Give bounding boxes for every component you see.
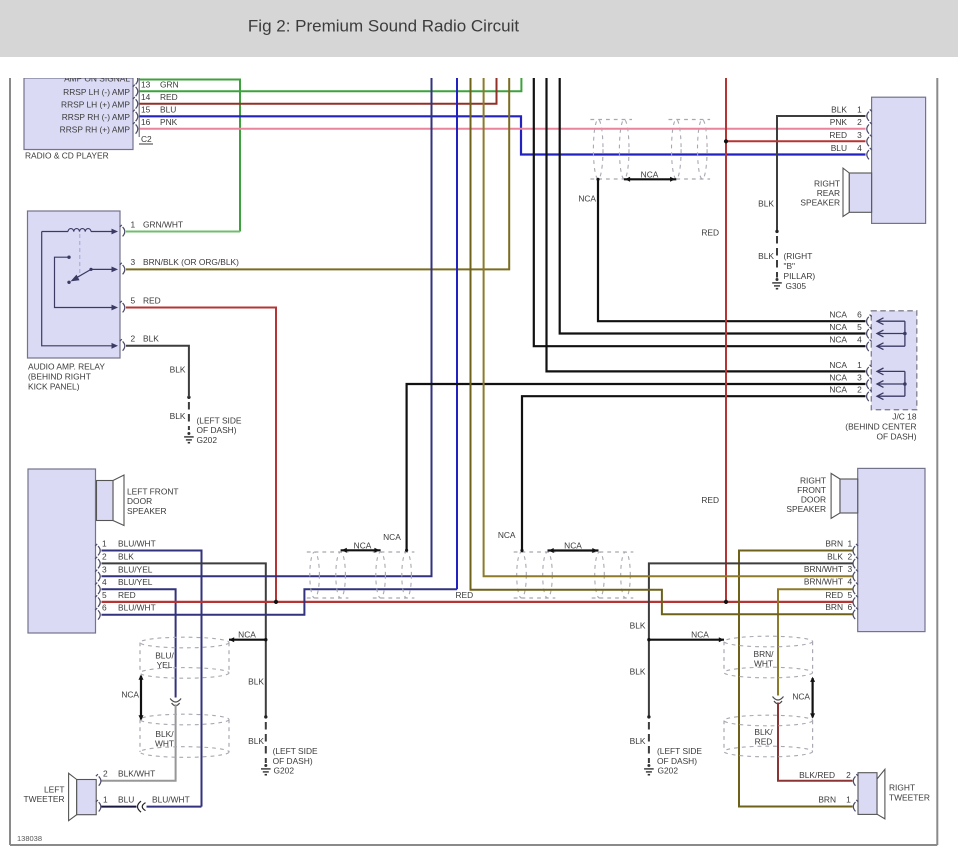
svg-text:NCA: NCA: [641, 169, 659, 179]
svg-text:BLK/WHT: BLK/WHT: [118, 769, 155, 779]
svg-text:(BEHIND CENTER: (BEHIND CENTER: [845, 421, 916, 431]
svg-text:BRN/BLK (OR ORG/BLK): BRN/BLK (OR ORG/BLK): [143, 257, 239, 267]
svg-text:NCA: NCA: [498, 530, 516, 540]
wire BRN/WHT right speaker pin 3 up at x484: [484, 78, 853, 576]
svg-text:RRSP RH (-) AMP: RRSP RH (-) AMP: [62, 112, 131, 122]
wire GRN amp-on-signal from radio to relay pin 1 vertical: [140, 80, 241, 232]
ground symbol G305: [772, 278, 782, 289]
svg-text:(RIGHT: (RIGHT: [784, 251, 813, 261]
svg-text:BLK/: BLK/: [754, 727, 773, 737]
radio & CD player box: [24, 78, 133, 150]
svg-text:TWEETER: TWEETER: [889, 793, 930, 803]
svg-text:15: 15: [141, 104, 151, 114]
svg-text:TWEETER: TWEETER: [24, 794, 65, 804]
wire RED right rear speaker pin 3: [726, 140, 866, 142]
svg-text:BLK: BLK: [758, 251, 774, 261]
connector oval pair G3: [514, 552, 556, 598]
svg-text:5: 5: [131, 295, 136, 305]
junction dot right BLK at NCA jumper: [647, 638, 650, 641]
svg-text:RED: RED: [829, 130, 847, 140]
svg-text:BRN/WHT: BRN/WHT: [804, 577, 843, 587]
NCA vertical jumper between right racetracks: [811, 678, 813, 717]
relay switch arm with arrow and lower contact dot: [74, 269, 91, 279]
radio pin arcs: [133, 73, 138, 134]
NCA vertical jumper between left racetracks: [140, 676, 142, 720]
svg-text:NCA: NCA: [829, 310, 847, 320]
relay upper contact dot and wire to pin 5: [67, 256, 70, 259]
wire NCA to J/C pin 3 ending at G2: [407, 384, 866, 550]
left tweeter pin arcs: [96, 774, 101, 811]
svg-text:BLK: BLK: [630, 620, 646, 630]
svg-text:BLK: BLK: [630, 666, 646, 676]
svg-text:J/C 18: J/C 18: [892, 411, 917, 421]
wire GRN/WHT relay pin 1: [126, 231, 240, 233]
svg-text:NCA: NCA: [829, 373, 847, 383]
svg-text:NCA: NCA: [829, 360, 847, 370]
audio amp relay box: [28, 211, 121, 358]
svg-text:2: 2: [847, 551, 852, 561]
wire GRN pin 13: [140, 78, 522, 91]
svg-text:NCA: NCA: [829, 322, 847, 332]
svg-text:14: 14: [141, 92, 151, 102]
svg-text:RED: RED: [701, 228, 719, 238]
svg-text:1: 1: [131, 219, 136, 229]
right front door speaker box: [858, 468, 925, 631]
left front door speaker icon: [113, 475, 124, 526]
junction dot left BLK at NCA jumper: [264, 638, 267, 641]
wire RED bus across page: [102, 601, 853, 603]
svg-text:SPEAKER: SPEAKER: [800, 197, 840, 207]
right front door speaker icon: [831, 473, 840, 518]
svg-text:NCA: NCA: [691, 630, 709, 640]
right tweeter pin arcs: [853, 774, 858, 811]
right front speaker pin arcs: [853, 544, 858, 619]
svg-text:BLK: BLK: [758, 199, 774, 209]
svg-text:BLK: BLK: [831, 105, 847, 115]
svg-text:Fig 2: Premium Sound Radio Cir: Fig 2: Premium Sound Radio Circuit: [248, 17, 519, 36]
svg-text:1: 1: [102, 539, 107, 549]
svg-text:BLU/YEL: BLU/YEL: [118, 564, 153, 574]
svg-text:BLK: BLK: [630, 736, 646, 746]
svg-text:3: 3: [847, 564, 852, 574]
wire RED pin 14: [140, 78, 497, 104]
svg-text:NCA: NCA: [792, 692, 810, 702]
svg-text:13: 13: [141, 80, 151, 90]
connector oval pair G4: [592, 552, 634, 598]
svg-text:WHT: WHT: [754, 659, 773, 669]
svg-text:16: 16: [141, 117, 151, 127]
svg-text:4: 4: [102, 577, 107, 587]
svg-text:5: 5: [857, 322, 862, 332]
svg-text:PNK: PNK: [160, 117, 178, 127]
svg-text:NCA: NCA: [564, 541, 582, 551]
svg-text:1: 1: [847, 539, 852, 549]
white top band: [0, 57, 958, 78]
svg-text:3: 3: [857, 373, 862, 383]
svg-text:RIGHT: RIGHT: [800, 475, 826, 485]
svg-text:BLU/: BLU/: [155, 651, 174, 661]
wire BRN/WHT right speaker pin 4 down to break: [778, 589, 853, 695]
svg-text:G202: G202: [274, 766, 295, 776]
svg-text:2: 2: [131, 334, 136, 344]
svg-text:2: 2: [103, 769, 108, 779]
junction dot BLK G305 splice: [775, 230, 778, 233]
svg-text:RIGHT: RIGHT: [889, 783, 915, 793]
wire BLU/WHT bright segment up to top at x457: [456, 78, 458, 589]
wire BLK right rear speaker pin 1 to ground G305: [777, 116, 866, 231]
border frame: [9, 77, 11, 845]
wire PNK pin 16 to right rear speaker pin 2: [140, 128, 866, 130]
svg-text:KICK PANEL): KICK PANEL): [28, 382, 80, 392]
radio connector bracket line C2: [138, 78, 140, 137]
wire BLU pin 15 to right rear speaker pin 4: [140, 116, 866, 154]
dashed BLK to G305: [776, 236, 778, 278]
NCA jumper P1-P2: [624, 178, 676, 180]
svg-text:RADIO & CD PLAYER: RADIO & CD PLAYER: [25, 151, 109, 161]
svg-text:DOOR: DOOR: [127, 496, 152, 506]
wire NCA to J/C pin 6 from P1: [598, 179, 866, 321]
NCA jumper from right chain to racetrack: [649, 639, 724, 641]
svg-text:RIGHT: RIGHT: [814, 178, 840, 188]
svg-text:G202: G202: [197, 435, 218, 445]
wire BRN right speaker pin 1 down to right tweeter pin 1: [739, 551, 853, 807]
J/C 18 dashed box: [871, 311, 917, 410]
right rear speaker box: [872, 97, 926, 223]
svg-text:2: 2: [857, 385, 862, 395]
J/C 18 lower bracket with arrows: [877, 368, 907, 400]
wire break symbol on BLU/YEL to BLK/WHT: [170, 699, 181, 706]
svg-text:C2: C2: [141, 134, 152, 144]
svg-text:LEFT: LEFT: [44, 784, 64, 794]
svg-text:G202: G202: [658, 766, 679, 776]
svg-text:NCA: NCA: [238, 630, 256, 640]
wire BLU left tweeter pin 1: [102, 806, 137, 808]
svg-text:BLU/WHT: BLU/WHT: [152, 794, 190, 804]
svg-text:RED: RED: [755, 737, 773, 747]
dashed BLK wire to ground: [188, 402, 190, 430]
wire RED relay pin 5 down to red bus: [126, 308, 276, 602]
connector oval pair P2: [669, 120, 711, 180]
svg-text:NCA: NCA: [829, 335, 847, 345]
svg-text:4: 4: [857, 143, 862, 153]
wire BLU/YEL left speaker pin 4 down to break: [102, 589, 176, 697]
connector oval pair G2: [373, 552, 415, 598]
svg-text:RRSP LH (+) AMP: RRSP LH (+) AMP: [61, 99, 130, 109]
wire BLK/RED down to right tweeter pin 2: [778, 703, 853, 781]
svg-text:(LEFT SIDE: (LEFT SIDE: [657, 746, 702, 756]
svg-text:REAR: REAR: [817, 188, 840, 198]
right rear speaker pin arcs: [867, 109, 872, 159]
junction dot red vertical at rear pin 3: [724, 139, 728, 143]
relay common wire to pin 3 arrow: [89, 268, 92, 271]
svg-text:BLK: BLK: [170, 411, 186, 421]
gray title bar: [0, 0, 958, 57]
left tweeter icon: [69, 773, 77, 820]
junction dot right BLK splice: [647, 715, 650, 718]
wire BLK left speaker pin 2 down to ground chain: [102, 563, 266, 717]
svg-text:1: 1: [103, 794, 108, 804]
svg-text:BLK: BLK: [143, 334, 159, 344]
svg-text:SPEAKER: SPEAKER: [127, 506, 167, 516]
svg-text:BLU/WHT: BLU/WHT: [118, 603, 156, 613]
svg-text:3: 3: [857, 130, 862, 140]
svg-text:2: 2: [846, 770, 851, 780]
svg-text:RED: RED: [160, 92, 178, 102]
junction dot BLK splice: [187, 396, 190, 399]
svg-text:NCA: NCA: [829, 385, 847, 395]
relay dashed actuator line: [79, 234, 81, 276]
ground symbol G202 behind relay: [184, 432, 194, 443]
svg-text:RED: RED: [118, 590, 136, 600]
wire NCA to J/C pin 2 ending at G3: [522, 396, 866, 550]
svg-text:BLK: BLK: [248, 736, 264, 746]
svg-text:BLK/RED: BLK/RED: [799, 770, 835, 780]
connector racetrack left upper BLU/YEL: [140, 637, 229, 678]
svg-text:5: 5: [847, 590, 852, 600]
svg-text:RRSP LH (-) AMP: RRSP LH (-) AMP: [63, 87, 130, 97]
svg-text:RRSP RH (+) AMP: RRSP RH (+) AMP: [60, 124, 131, 134]
relay coil and contacts internal drawing: [42, 231, 68, 233]
svg-text:1: 1: [857, 360, 862, 370]
svg-text:SPEAKER: SPEAKER: [786, 504, 826, 514]
svg-text:RED: RED: [825, 590, 843, 600]
svg-text:PNK: PNK: [830, 117, 848, 127]
svg-text:BLK: BLK: [248, 676, 264, 686]
ground symbol G202 right chain: [644, 764, 654, 775]
left speaker pin arcs: [95, 544, 100, 620]
svg-text:OF DASH): OF DASH): [657, 756, 697, 766]
svg-text:BLK: BLK: [827, 551, 843, 561]
connector oval pair G1: [307, 552, 349, 598]
junction dot red bus at red vertical: [724, 600, 728, 604]
svg-text:6: 6: [847, 602, 852, 612]
wire BLU/YEL left speaker pin 3 up to top: [102, 78, 432, 576]
wire BLK/WHT down to left tweeter pin 2: [102, 705, 176, 781]
wire RED vertical from top to red bus: [725, 78, 727, 602]
wire NCA to J/C pin 1: [547, 78, 866, 371]
svg-text:(LEFT SIDE: (LEFT SIDE: [273, 746, 318, 756]
relay pin arcs: [120, 225, 125, 351]
svg-text:NCA: NCA: [578, 194, 596, 204]
svg-text:AUDIO AMP. RELAY: AUDIO AMP. RELAY: [28, 362, 105, 372]
svg-text:BLK: BLK: [170, 365, 186, 375]
svg-text:NCA: NCA: [121, 690, 139, 700]
svg-text:1: 1: [846, 794, 851, 804]
relay coil left leg to pin 2: [42, 232, 113, 346]
wire break on BLU to BLU/WHT: [138, 801, 146, 812]
svg-text:RED: RED: [456, 590, 474, 600]
right tweeter icon: [877, 769, 885, 819]
svg-text:4: 4: [847, 577, 852, 587]
svg-text:(BEHIND RIGHT: (BEHIND RIGHT: [28, 372, 91, 382]
svg-text:G305: G305: [786, 281, 807, 291]
wire BLK right speaker pin 2 to ground chain: [649, 563, 853, 717]
svg-text:BRN/: BRN/: [753, 649, 774, 659]
wire BLU/WHT from break to vertical: [147, 806, 202, 808]
dashed BLK to ground G202 left chain: [265, 722, 267, 763]
wire BLU/WHT left speaker pin 1 down to tweeter junction: [102, 551, 202, 807]
svg-text:OF DASH): OF DASH): [273, 756, 313, 766]
svg-text:BLU: BLU: [831, 143, 847, 153]
svg-text:1: 1: [857, 105, 862, 115]
svg-text:BLK/: BLK/: [155, 729, 174, 739]
wire NCA to J/C pin 4: [534, 78, 866, 346]
svg-text:BRN: BRN: [825, 602, 843, 612]
svg-text:GRN/WHT: GRN/WHT: [143, 219, 183, 229]
svg-text:(LEFT SIDE: (LEFT SIDE: [197, 416, 242, 426]
connector oval pair P1: [590, 120, 632, 180]
svg-text:PILLAR): PILLAR): [784, 271, 816, 281]
right rear speaker icon: [843, 168, 849, 216]
svg-text:BLU/YEL: BLU/YEL: [118, 577, 153, 587]
svg-text:"B": "B": [784, 261, 796, 271]
svg-text:YEL: YEL: [157, 660, 173, 670]
svg-text:RED: RED: [701, 495, 719, 505]
svg-text:BLK: BLK: [118, 551, 134, 561]
NCA jumper G1-G2: [341, 549, 381, 551]
svg-text:RED: RED: [143, 295, 161, 305]
svg-text:FRONT: FRONT: [797, 485, 826, 495]
svg-text:138038: 138038: [17, 834, 42, 843]
wire BRN right speaker pin 6 jog to x470 vertical: [471, 78, 853, 614]
svg-text:BRN/WHT: BRN/WHT: [804, 564, 843, 574]
wire NCA to J/C pin 5: [560, 78, 866, 334]
svg-text:OF DASH): OF DASH): [197, 425, 237, 435]
connector racetrack left lower BLK/WHT: [140, 714, 229, 757]
svg-text:6: 6: [102, 603, 107, 613]
wire BLK relay pin 2 to ground G202: [126, 346, 189, 392]
svg-text:2: 2: [857, 117, 862, 127]
svg-text:6: 6: [857, 310, 862, 320]
svg-text:NCA: NCA: [383, 532, 401, 542]
svg-text:WHT: WHT: [155, 738, 174, 748]
svg-text:LEFT FRONT: LEFT FRONT: [127, 487, 179, 497]
J/C 18 pin arcs: [867, 315, 872, 402]
relay coil wire to pin 1 arrow: [91, 231, 113, 233]
ground symbol G202 left chain: [261, 764, 271, 775]
NCA jumper G3-G4: [548, 549, 599, 551]
svg-text:BRN: BRN: [825, 539, 843, 549]
svg-text:DOOR: DOOR: [801, 494, 826, 504]
svg-text:BLU: BLU: [160, 104, 176, 114]
dashed BLK to ground right chain: [648, 722, 650, 763]
connector racetrack right upper BRN/WHT: [724, 636, 813, 678]
wire BRN/BLK relay pin 3 up to top: [126, 78, 509, 269]
connector racetrack right lower BLK/RED: [724, 715, 813, 757]
svg-text:BRN: BRN: [818, 794, 836, 804]
svg-text:BLU/WHT: BLU/WHT: [118, 539, 156, 549]
junction dot left BLK splice: [264, 715, 267, 718]
svg-text:3: 3: [131, 257, 136, 267]
junction dot red bus at relay feed: [274, 600, 278, 604]
svg-text:NCA: NCA: [354, 540, 372, 550]
wire break BRN/WHT to BLK/RED: [773, 697, 784, 704]
svg-text:BLU: BLU: [118, 794, 134, 804]
J/C 18 upper bracket with arrows: [877, 318, 907, 350]
wire BLU/WHT left speaker pin 6 jog: [102, 589, 458, 615]
svg-text:GRN: GRN: [160, 80, 179, 90]
NCA jumper into left chain: [229, 639, 266, 641]
svg-text:4: 4: [857, 335, 862, 345]
svg-text:2: 2: [102, 551, 107, 561]
left front door speaker box: [28, 469, 96, 633]
svg-text:5: 5: [102, 590, 107, 600]
svg-text:OF DASH): OF DASH): [876, 432, 916, 442]
svg-text:3: 3: [102, 564, 107, 574]
